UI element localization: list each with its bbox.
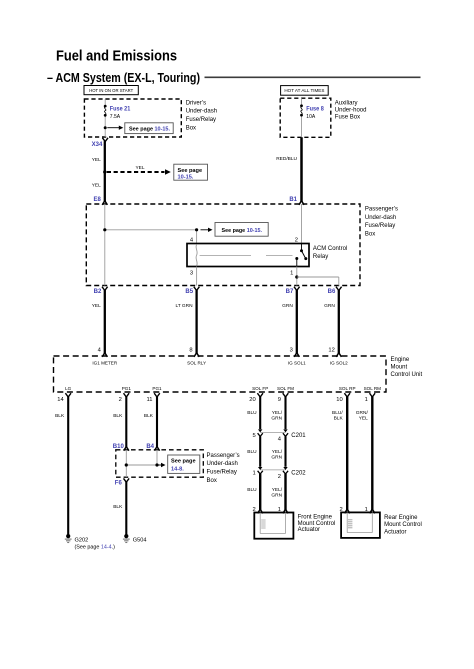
svg-text:20: 20 [249, 397, 255, 403]
svg-text:IG SOL2: IG SOL2 [330, 360, 348, 365]
rear actuator pin terminals 2 and 1 [339, 507, 374, 513]
fuse F21 [104, 105, 107, 117]
svg-text:– ACM System (EX-L, Touring): – ACM System (EX-L, Touring) [47, 70, 200, 85]
svg-text:E8: E8 [93, 197, 101, 203]
label small Passenger's box [207, 453, 240, 484]
wire pin2 to B10 (BLK) [113, 397, 126, 448]
terminal B5 [185, 287, 199, 296]
EMCU bottom pin 1 SOL RM [364, 386, 382, 403]
svg-text:Passenger’s: Passenger’s [365, 207, 398, 213]
svg-text:Box: Box [207, 478, 217, 484]
EMCU bottom pin 9 SOL FM [277, 386, 294, 403]
svg-text:1: 1 [290, 271, 293, 277]
label RED/BLU [276, 156, 297, 162]
svg-text:YEL/: YEL/ [272, 410, 283, 416]
terminal B4 [146, 444, 159, 451]
svg-text:IG1 METER: IG1 METER [92, 360, 117, 365]
wire C202 to front actuator pin2 (BLU) [247, 474, 260, 510]
svg-text:BLU/: BLU/ [332, 410, 343, 416]
svg-text:14: 14 [57, 397, 64, 403]
wire relay pin3 to B5 [196, 267, 198, 286]
see page 10-15 box (driver) [125, 123, 173, 134]
svg-text:BLU: BLU [247, 410, 257, 416]
svg-text:RED/BLU: RED/BLU [276, 156, 297, 162]
svg-text:Mount: Mount [391, 364, 408, 370]
relay switch [295, 244, 307, 267]
svg-text:SOL RP: SOL RP [339, 386, 356, 391]
wire E8 to B2 (in-box) [104, 204, 106, 286]
terminal B1 [289, 197, 304, 205]
front actuator pin terminals 2 and 1 [252, 507, 288, 513]
junction on YEL wire [103, 170, 106, 173]
EMCU bottom pin 20 SOL FP [249, 386, 268, 403]
label Passenger's Under-dash Fuse/Relay Box [365, 207, 398, 238]
svg-text:SOL RLY: SOL RLY [187, 360, 206, 365]
EMCU bottom pin 11 PG1 [146, 386, 162, 403]
svg-text:10: 10 [336, 397, 342, 403]
svg-text:Box: Box [365, 231, 375, 237]
svg-text:Mount Control: Mount Control [384, 522, 422, 528]
svg-text:Actuator: Actuator [298, 527, 320, 533]
svg-text:BLK: BLK [113, 413, 123, 419]
svg-text:10-15.: 10-15. [178, 174, 194, 180]
svg-text:Under-dash: Under-dash [207, 461, 238, 467]
svg-text:B2: B2 [94, 289, 102, 295]
relay linkage [200, 254, 293, 256]
EMCU bottom pin 14 LG [57, 386, 71, 403]
svg-text:HOT IN ON OR START: HOT IN ON OR START [89, 88, 133, 93]
svg-text:Fuse 21: Fuse 21 [110, 106, 131, 113]
svg-text:1: 1 [365, 397, 368, 403]
terminal X34 (fork) [92, 138, 108, 148]
svg-text:2: 2 [119, 397, 122, 403]
svg-text:Fuse/Relay: Fuse/Relay [186, 117, 216, 123]
terminal E8 [93, 197, 107, 205]
see page 10-15 box (mid) [174, 164, 208, 180]
svg-text:SOL FP: SOL FP [252, 386, 268, 391]
svg-text:5: 5 [252, 433, 255, 439]
fuse F8 [300, 104, 303, 116]
wire B6 to EMCU pin12 (GRN) [324, 290, 339, 354]
label Driver's Under-dash Fuse/Relay Box [186, 100, 217, 131]
svg-text:Fuse 8: Fuse 8 [306, 105, 324, 112]
label Fuse 21 7.5A [110, 106, 131, 120]
svg-text:(See page 14-4.): (See page 14-4.) [75, 545, 116, 551]
svg-text:GRN/: GRN/ [356, 410, 369, 416]
svg-text:2: 2 [295, 238, 298, 244]
wire fuse 21 feed (in-box) [104, 99, 106, 137]
Driver's Under-dash Fuse/Relay Box (dashed) [84, 99, 181, 137]
svg-text:LT GRN: LT GRN [175, 303, 193, 309]
svg-text:GRN: GRN [282, 303, 293, 309]
terminal B7 [286, 287, 300, 296]
svg-text:Driver’s: Driver’s [186, 100, 206, 106]
junction in driver's box [104, 126, 107, 129]
wire C202 to front actuator pin1 (YEL/GRN) [271, 474, 285, 510]
Passenger's Under-dash Fuse/Relay Box (dashed) [86, 204, 360, 286]
svg-text:YEL: YEL [92, 157, 101, 163]
ground G504 [123, 534, 147, 543]
svg-text:GRN: GRN [271, 492, 282, 498]
terminal B10 [113, 444, 129, 451]
svg-text:B4: B4 [146, 444, 154, 450]
svg-text:IG SOL1: IG SOL1 [288, 360, 306, 365]
wire pin14 to G202 (BLK) [55, 397, 68, 535]
svg-text:Box: Box [186, 126, 196, 132]
svg-text:2: 2 [278, 474, 281, 480]
label box HOT IN ON OR START [84, 86, 138, 95]
arrow to see page 10-15 (driver) [107, 126, 123, 130]
svg-text:YEL: YEL [359, 415, 368, 421]
wire C201 to C202 (YEL/GRN) [271, 436, 285, 467]
svg-text:See page 10-15.: See page 10-15. [129, 126, 170, 132]
in-box wires and junction (small box) [125, 450, 159, 477]
terminal F6 [115, 478, 129, 486]
svg-text:7.5A: 7.5A [110, 114, 121, 120]
label Front Engine Mount Control Actuator [298, 515, 336, 534]
svg-text:Control Unit: Control Unit [391, 372, 423, 378]
svg-text:X34: X34 [92, 142, 103, 148]
svg-text:Rear Engine: Rear Engine [384, 515, 418, 521]
svg-text:11: 11 [146, 397, 152, 403]
ground G202 [65, 534, 115, 551]
arrow to see page 14-8 [159, 463, 166, 467]
wire C201 to C202 (BLU) [247, 436, 260, 467]
label Rear Engine Mount Control Actuator [384, 515, 422, 535]
terminal B2 [94, 287, 108, 296]
wire B1 to relay pin 2 [301, 204, 303, 244]
svg-text:C201: C201 [291, 433, 306, 439]
EMCU top pin 4 IG1 METER [92, 347, 117, 365]
svg-text:LG: LG [65, 386, 72, 391]
EMCU top pin 3 IG SOL1 [288, 347, 306, 365]
wire pin9 to C201 (YEL/GRN) [271, 397, 285, 430]
Rear Engine Mount Control Actuator box [341, 512, 380, 538]
svg-text:Front Engine: Front Engine [298, 515, 333, 521]
svg-text:G504: G504 [133, 537, 147, 543]
svg-text:3: 3 [190, 271, 193, 277]
svg-text:Under-hood: Under-hood [335, 108, 367, 114]
svg-text:12: 12 [328, 347, 334, 353]
wire relay pin1 to B7 and branch to B6 [295, 267, 339, 286]
svg-text:See page 10-15.: See page 10-15. [222, 228, 263, 234]
svg-text:YEL: YEL [135, 165, 144, 171]
svg-text:YEL/: YEL/ [272, 449, 283, 455]
svg-text:Passenger’s: Passenger’s [207, 453, 240, 459]
svg-text:Auxiliary: Auxiliary [335, 101, 358, 107]
svg-text:BLU: BLU [247, 449, 257, 455]
svg-text:GRN: GRN [271, 415, 282, 421]
relay ACM Control Relay box [187, 244, 309, 267]
wire F6 to G504 (BLK) [113, 482, 126, 535]
front actuator inner wiring and coil [260, 513, 285, 534]
svg-text:14-8.: 14-8. [171, 466, 184, 472]
svg-text:BLK: BLK [334, 415, 344, 421]
svg-text:10A: 10A [306, 114, 316, 120]
label YEL upper [92, 157, 101, 163]
svg-text:9: 9 [278, 397, 281, 403]
svg-text:HOT AT ALL TIMES: HOT AT ALL TIMES [284, 88, 324, 93]
see page 10-15 box (passenger) [215, 223, 268, 237]
svg-text:B7: B7 [286, 289, 294, 295]
svg-text:YEL: YEL [92, 183, 101, 189]
svg-text:Fuse/Relay: Fuse/Relay [365, 223, 395, 229]
svg-text:YEL/: YEL/ [272, 487, 283, 493]
wire pin20 to C201 (BLU) [247, 397, 260, 430]
wire B5 to EMCU pin8 (LT GRN) [175, 290, 196, 354]
header rule [205, 76, 421, 78]
dashed YEL arrow to see page [107, 165, 171, 175]
svg-text:See page: See page [178, 168, 203, 174]
svg-text:Mount Control: Mount Control [298, 521, 336, 527]
arrow to see page (passenger) [201, 228, 213, 232]
EMCU bottom pin 10 SOL RP [336, 386, 355, 403]
Auxiliary Under-hood Fuse Box (dashed) [280, 98, 331, 137]
svg-text:BLK: BLK [55, 413, 65, 419]
label box HOT AT ALL TIMES [281, 86, 329, 96]
svg-text:Under-dash: Under-dash [186, 109, 217, 115]
wire pin10 to rear actuator pin2 (BLU/BLK) [332, 397, 347, 511]
wire fuse8 to B1 (RED/BLU) [300, 137, 303, 202]
svg-text:ACM Control: ACM Control [313, 246, 347, 252]
wire B7 to EMCU pin3 (GRN) [282, 290, 297, 354]
wire fuse 8 feed (in-box) [301, 98, 303, 137]
relay pin numbers 4 2 3 1 [190, 238, 298, 277]
connector C202 [252, 467, 306, 480]
Front Engine Mount Control Actuator box [254, 513, 293, 539]
svg-text:YEL: YEL [92, 303, 101, 309]
svg-text:Fuse/Relay: Fuse/Relay [207, 470, 237, 476]
wire branch to relay pin 4 [105, 230, 197, 244]
svg-text:SOL FM: SOL FM [277, 386, 294, 391]
wire X34 to E8 (YEL) [104, 141, 106, 202]
wire pin11 to B4 (BLK) [144, 397, 157, 448]
terminal B6 [328, 287, 342, 296]
EMCU top pin 12 IG SOL2 [328, 347, 348, 365]
wire B2 to EMCU pin4 (YEL) [92, 290, 105, 354]
label YEL lower [92, 183, 101, 189]
svg-text:BLK: BLK [144, 413, 154, 419]
rear actuator inner wiring and coil [347, 512, 372, 532]
EMCU top pin 8 SOL RLY [187, 347, 206, 365]
wire pin1 to rear actuator pin1 (GRN/YEL) [356, 397, 373, 511]
svg-text:F6: F6 [115, 480, 123, 486]
junction dots on branch [103, 228, 198, 231]
see page 14-8 box [168, 455, 200, 473]
svg-text:Relay: Relay [313, 254, 328, 260]
EMCU bottom pin 2 PG1 [119, 386, 132, 403]
title Fuel and Emissions [56, 48, 177, 65]
svg-text:B1: B1 [289, 197, 297, 203]
svg-text:Fuel and Emissions: Fuel and Emissions [56, 48, 177, 65]
label Auxiliary Under-hood Fuse Box [335, 101, 367, 121]
svg-text:C202: C202 [291, 471, 306, 477]
label ACM Control Relay [313, 246, 347, 260]
small Passenger's Under-dash Fuse/Relay Box (dashed) [116, 450, 204, 477]
svg-text:Under-dash: Under-dash [365, 215, 396, 221]
svg-text:B6: B6 [328, 289, 336, 295]
label Fuse 8 10A [306, 105, 324, 120]
svg-text:SOL RM: SOL RM [364, 386, 382, 391]
svg-text:BLK: BLK [113, 504, 123, 510]
label Engine Mount Control Unit [391, 357, 423, 378]
svg-text:GRN: GRN [324, 303, 335, 309]
svg-text:BLU: BLU [247, 487, 257, 493]
svg-text:B10: B10 [113, 444, 125, 450]
svg-text:Engine: Engine [391, 357, 410, 363]
svg-text:GRN: GRN [271, 454, 282, 460]
svg-text:See page: See page [171, 459, 196, 465]
svg-text:B5: B5 [185, 289, 193, 295]
svg-text:8: 8 [189, 347, 192, 353]
svg-text:3: 3 [290, 347, 293, 353]
Engine Mount Control Unit box (dashed) [54, 356, 387, 392]
svg-text:1: 1 [252, 470, 255, 476]
svg-text:Actuator: Actuator [384, 529, 406, 535]
connector C201 [252, 429, 306, 442]
svg-text:G202: G202 [75, 537, 89, 543]
subtitle ACM System (EX-L, Touring) [47, 70, 200, 85]
svg-text:PG1: PG1 [152, 386, 162, 391]
relay coil [196, 245, 197, 266]
svg-text:PG1: PG1 [122, 386, 132, 391]
svg-text:Fuse Box: Fuse Box [335, 115, 360, 121]
